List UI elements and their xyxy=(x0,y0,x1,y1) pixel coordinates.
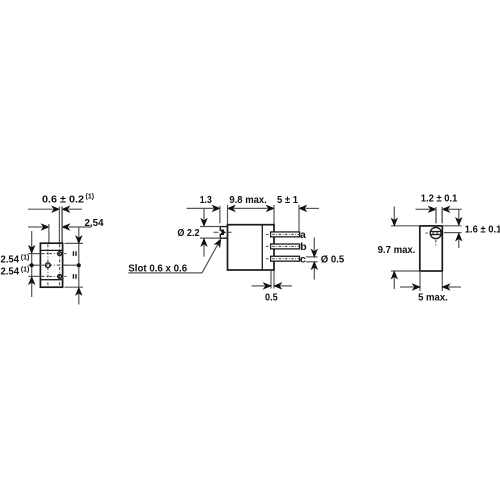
svg-text:(1): (1) xyxy=(21,254,30,261)
svg-text:Ø 0.5: Ø 0.5 xyxy=(321,254,345,266)
svg-text:1.2 ± 0.1: 1.2 ± 0.1 xyxy=(421,193,458,205)
svg-text:9.7 max.: 9.7 max. xyxy=(378,244,416,256)
svg-text:5 ± 1: 5 ± 1 xyxy=(277,194,298,206)
svg-text:0.6 ± 0.2: 0.6 ± 0.2 xyxy=(42,194,84,206)
svg-text:c: c xyxy=(300,253,306,265)
svg-text:b: b xyxy=(300,241,306,253)
svg-text:5 max.: 5 max. xyxy=(418,292,448,304)
svg-text:a: a xyxy=(300,229,306,241)
svg-text:0.5: 0.5 xyxy=(265,292,278,304)
svg-text:9.8 max.: 9.8 max. xyxy=(229,194,266,206)
svg-text:1.6 ± 0.1: 1.6 ± 0.1 xyxy=(465,224,500,236)
svg-text:2.54: 2.54 xyxy=(1,266,20,278)
svg-text:(1): (1) xyxy=(21,266,30,273)
svg-text:(1): (1) xyxy=(86,194,95,201)
svg-text:2.54: 2.54 xyxy=(1,254,20,266)
svg-text:1.3: 1.3 xyxy=(200,194,212,206)
svg-text:Ø 2.2: Ø 2.2 xyxy=(177,227,199,239)
